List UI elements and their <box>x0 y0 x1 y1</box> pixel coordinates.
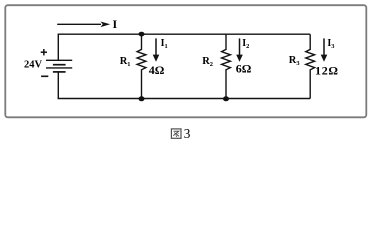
svg-text:4Ω: 4Ω <box>149 63 165 77</box>
svg-text:I: I <box>113 17 118 31</box>
svg-text:12Ω: 12Ω <box>315 64 339 78</box>
svg-text:24V: 24V <box>24 60 43 71</box>
svg-text:6Ω: 6Ω <box>236 62 252 76</box>
svg-text:3: 3 <box>184 126 191 141</box>
